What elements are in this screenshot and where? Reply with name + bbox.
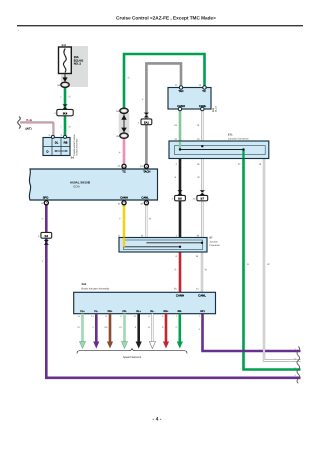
wire RL+ black	[137, 314, 140, 342]
A7 internal buses	[146, 242, 202, 244]
svg-text:E71: E71	[228, 134, 233, 137]
svg-text:EA1: EA1	[144, 121, 150, 124]
svg-text:A7: A7	[209, 237, 213, 240]
wire FR- light green	[123, 314, 126, 342]
wire: green from fuse to switch	[64, 87, 67, 138]
brake actuator assembly S66	[74, 283, 216, 313]
bottom pin numbers	[77, 315, 200, 318]
svg-text:CANH: CANH	[120, 196, 128, 199]
svg-text:FL-: FL-	[94, 310, 98, 313]
E71 internal bus	[180, 149, 244, 151]
DLC3 D10	[168, 88, 211, 110]
svg-text:Junction: Junction	[209, 240, 218, 243]
svg-text:S10: S10	[62, 44, 67, 47]
svg-text:G: G	[176, 326, 178, 329]
DLC3 label rotated	[212, 105, 218, 112]
svg-text:RR+: RR+	[164, 310, 170, 313]
svg-text:ECM: ECM	[74, 185, 81, 188]
wire: gray loop ECM TACH to DLC3 TAC	[146, 63, 181, 164]
svg-text:DL: DL	[55, 142, 59, 145]
wire: white DLC3 CANL down through E71 to A7	[201, 109, 203, 238]
svg-text:CANL: CANL	[141, 196, 149, 199]
svg-text:Switch Assembly: Switch Assembly	[75, 138, 78, 156]
wire FR+ brown	[109, 314, 112, 342]
wire FL- purple	[95, 314, 98, 342]
wire: green loop ECM TC to DLC3 TC	[124, 54, 205, 110]
arrow up in junction block	[121, 115, 126, 120]
svg-text:NO. 2: NO. 2	[74, 63, 82, 66]
connector oval lower on TC line	[116, 133, 128, 138]
wire: pink P-G horizontal two-tone	[20, 121, 54, 123]
svg-text:Brake Actuator Assembly: Brake Actuator Assembly	[82, 288, 111, 291]
connector mating arrows below E4	[44, 240, 49, 242]
svg-text:Cruise Control <2AZ-FE , Excep: Cruise Control <2AZ-FE , Except TMC Made…	[116, 15, 216, 20]
svg-text:SP1: SP1	[200, 310, 205, 313]
switch pin circles	[51, 135, 54, 138]
svg-text:E7: E7	[201, 197, 205, 201]
svg-text:SPD: SPD	[43, 196, 49, 199]
DLC3 pin circles	[179, 86, 183, 90]
wire: purple SPD from ECM to right edge	[46, 200, 300, 378]
svg-text:- 4 -: - 4 -	[153, 417, 162, 423]
svg-text:S4: S4	[71, 157, 75, 160]
arrow below fuse	[62, 77, 67, 82]
junction connector E71	[169, 134, 269, 159]
svg-text:FR-: FR-	[122, 310, 126, 313]
svg-text:RL-: RL-	[150, 310, 154, 313]
svg-text:S66: S66	[82, 283, 87, 286]
connector mating arrows on white wire	[200, 190, 205, 192]
connector mating arrows	[62, 104, 67, 106]
connector mating arrows on black wire	[177, 190, 182, 192]
shading behind fuse	[61, 46, 88, 87]
fuse F13 15A ECU-IG NO.2	[59, 44, 84, 74]
wire: white E71 to right edge	[264, 159, 301, 361]
svg-text:Connector: Connector	[209, 244, 220, 247]
svg-text:TACH: TACH	[143, 171, 150, 174]
wire: white A7 to brake actuator CANL	[201, 252, 203, 292]
wire: purple SP1 from brake actuator to right edge	[203, 314, 301, 351]
wire: pink to ECM TC	[123, 138, 126, 165]
svg-text:(A/T): (A/T)	[26, 128, 32, 131]
wire RR+ red	[165, 314, 168, 342]
svg-text:LG: LG	[77, 326, 80, 329]
park/neutral position switch assembly S4	[43, 138, 70, 156]
svg-text:FR+: FR+	[108, 310, 113, 313]
in-line connector EA1	[138, 119, 152, 125]
svg-text:Junction Connector: Junction Connector	[228, 138, 249, 141]
sensor wire color labels	[77, 326, 200, 331]
svg-text:2B: 2B	[116, 135, 119, 138]
svg-text:DLC3: DLC3	[215, 105, 218, 112]
svg-text:E6: E6	[178, 197, 182, 201]
wire: green E71 to right edge	[244, 150, 301, 370]
connector mating arrows on gray wire	[144, 113, 149, 115]
shading behind connector pair arrows	[119, 114, 130, 134]
svg-text:LG: LG	[119, 326, 122, 329]
in-line connector E6	[172, 195, 186, 200]
wire RL- white	[151, 314, 153, 342]
svg-text:D10: D10	[212, 107, 215, 112]
svg-text:E4: E4	[45, 234, 49, 238]
right edge link labels	[294, 348, 296, 377]
svg-text:TC: TC	[122, 171, 126, 174]
top rule	[17, 25, 303, 26]
svg-text:G: G	[69, 96, 71, 99]
svg-text:TAC: TAC	[178, 90, 183, 93]
svg-text:G: G	[247, 263, 249, 266]
connector oval upper on TC line	[116, 108, 128, 113]
svg-text:R: R	[175, 269, 177, 272]
in-line connector IK4	[54, 109, 73, 115]
wire: black E71 to A7	[179, 159, 182, 238]
wire: light green DLC3 CANH to E71	[179, 109, 182, 142]
svg-text:Speed Sensors: Speed Sensors	[123, 356, 142, 359]
svg-text:G: G	[69, 126, 71, 129]
wire RR- green	[179, 314, 182, 342]
svg-text:1B: 1B	[57, 84, 60, 87]
svg-text:IK4: IK4	[63, 111, 68, 115]
ECM pin circles	[122, 164, 126, 168]
svg-text:RL+: RL+	[136, 310, 141, 313]
in-line connector E4 on purple	[38, 232, 52, 238]
wire: yellow ECM CANH to A7	[123, 200, 126, 238]
svg-text:FL+: FL+	[80, 310, 85, 313]
wire: link through connector pair	[123, 110, 125, 136]
svg-text:LG: LG	[174, 124, 177, 127]
wire: thin white ECM CANL to A7	[145, 200, 147, 238]
right edge cut squiggle	[297, 347, 300, 384]
ECM A60AL B410B	[29, 169, 157, 200]
svg-text:A60AL B410B: A60AL B410B	[70, 181, 91, 185]
svg-text:1B: 1B	[116, 110, 119, 113]
svg-text:RR-: RR-	[178, 310, 183, 313]
wire: red A7 to brake actuator CANH	[179, 252, 182, 292]
svg-text:TC: TC	[202, 90, 206, 93]
svg-text:CANL: CANL	[198, 294, 206, 298]
svg-text:RB: RB	[64, 142, 68, 145]
in-line connector E7	[193, 195, 208, 200]
svg-text:Park/Neutral Position: Park/Neutral Position	[73, 134, 76, 156]
svg-text:BR: BR	[104, 326, 107, 329]
arrow down in junction block	[121, 128, 126, 133]
page continuation squiggle P-G	[18, 117, 21, 129]
svg-text:P–G: P–G	[27, 119, 32, 122]
switch label rotated	[71, 134, 79, 160]
svg-text:D: D	[47, 151, 49, 154]
svg-text:CANH: CANH	[176, 294, 184, 298]
wire FL+ light green	[81, 314, 84, 342]
speed sensors brace	[77, 349, 187, 354]
wire fuse to connector	[64, 74, 66, 79]
connector oval below fuse	[57, 82, 69, 87]
junction connector A7	[119, 237, 220, 252]
svg-text:G: G	[128, 77, 130, 80]
